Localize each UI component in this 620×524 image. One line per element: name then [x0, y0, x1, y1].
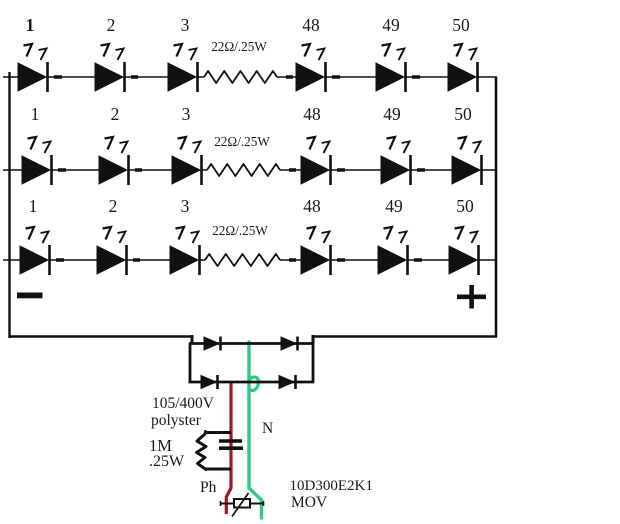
svg-text:Ph: Ph [200, 479, 217, 496]
wire bottom bus right [312, 335, 497, 338]
wire bridge bottom rail [189, 381, 315, 384]
wire dashes row 2 [58, 168, 425, 171]
wire bridge left side [189, 343, 192, 383]
svg-text:48: 48 [303, 104, 321, 124]
resistor R2 (row 2) [207, 164, 280, 176]
svg-text:3: 3 [182, 104, 191, 124]
bridge diode D3 (bottom left) [201, 375, 218, 389]
svg-text:N: N [262, 420, 273, 437]
LED 50 (string 2) [452, 137, 482, 185]
LED 3 (string 2) [172, 137, 202, 185]
svg-text:48: 48 [303, 196, 321, 216]
node - (negative terminal) [17, 293, 43, 299]
LED 49 (string 3) [378, 227, 408, 275]
svg-text:3: 3 [181, 196, 190, 216]
capacitor C1 105/400V polyester [219, 441, 243, 448]
svg-text:2: 2 [109, 196, 118, 216]
wire bottom bus left [9, 335, 194, 338]
MOV RV1 10D300E2K1 [220, 493, 264, 517]
svg-text:.25W: .25W [149, 453, 185, 470]
wire row 1 [3, 76, 497, 78]
svg-text:3: 3 [181, 15, 190, 35]
node + (positive terminal) [457, 285, 486, 309]
resistor R3 (row 3) [205, 254, 280, 266]
LED 2 (string 2) [99, 137, 129, 185]
svg-text:22Ω/.25W: 22Ω/.25W [211, 39, 267, 54]
LED 1 (string 2) [22, 137, 52, 185]
svg-text:49: 49 [383, 104, 401, 124]
svg-text:50: 50 [456, 196, 474, 216]
bridge diode D4 (bottom right) [279, 375, 296, 389]
svg-text:1: 1 [31, 104, 40, 124]
wire N hop loop at bridge bottom rail [249, 377, 259, 391]
wire row 3 [3, 259, 497, 261]
svg-text:2: 2 [111, 104, 120, 124]
LED 1 (string 1) [18, 44, 48, 92]
wire bridge right riser [312, 335, 315, 344]
svg-text:48: 48 [302, 15, 320, 35]
resistor R4 1M bleeder (squiggle) [197, 432, 207, 470]
wire right rail (positive bus) [495, 77, 498, 337]
svg-text:49: 49 [385, 196, 403, 216]
wire Ph (phase, red) [226, 381, 231, 514]
svg-text:50: 50 [452, 15, 470, 35]
LED 3 (string 3) [170, 227, 200, 275]
wire dashes row 3 [56, 258, 422, 261]
LED 2 (string 3) [97, 227, 127, 275]
LED 48 (string 2) [301, 137, 331, 185]
wire row 2 [3, 169, 497, 171]
svg-text:1: 1 [26, 15, 35, 35]
svg-text:10D300E2K1: 10D300E2K1 [290, 478, 373, 494]
svg-text:22Ω/.25W: 22Ω/.25W [212, 223, 268, 238]
svg-text:polyster: polyster [151, 412, 202, 429]
svg-text:MOV: MOV [291, 494, 328, 511]
LED 50 (string 1) [448, 44, 478, 92]
LED 48 (string 3) [301, 227, 331, 275]
svg-text:22Ω/.25W: 22Ω/.25W [214, 134, 270, 149]
wire RC loop bottom [205, 468, 231, 471]
svg-text:105/400V: 105/400V [152, 395, 215, 412]
wire left rail (negative bus) [8, 72, 10, 338]
bridge diode D2 (top right) [281, 337, 298, 351]
LED 50 (string 3) [449, 227, 479, 275]
LED 1 (string 3) [20, 227, 50, 275]
svg-text:1: 1 [29, 196, 38, 216]
wire dashes row 1 [54, 75, 420, 78]
wire bridge left riser [191, 335, 194, 344]
svg-text:49: 49 [382, 15, 400, 35]
wire RC loop top [205, 431, 231, 434]
bridge diode D1 (top left) [204, 337, 221, 351]
LED 48 (string 1) [296, 44, 326, 92]
resistor R1 (row 1) [204, 71, 277, 83]
LED 2 (string 1) [95, 44, 125, 92]
LED 49 (string 1) [376, 44, 406, 92]
svg-text:2: 2 [107, 15, 116, 35]
LED 3 (string 1) [168, 44, 198, 92]
wire bridge right side [312, 343, 315, 383]
svg-text:50: 50 [454, 104, 472, 124]
LED 49 (string 2) [381, 137, 411, 185]
wire bridge top rail [189, 342, 314, 345]
wire N (neutral, green) [249, 342, 262, 518]
